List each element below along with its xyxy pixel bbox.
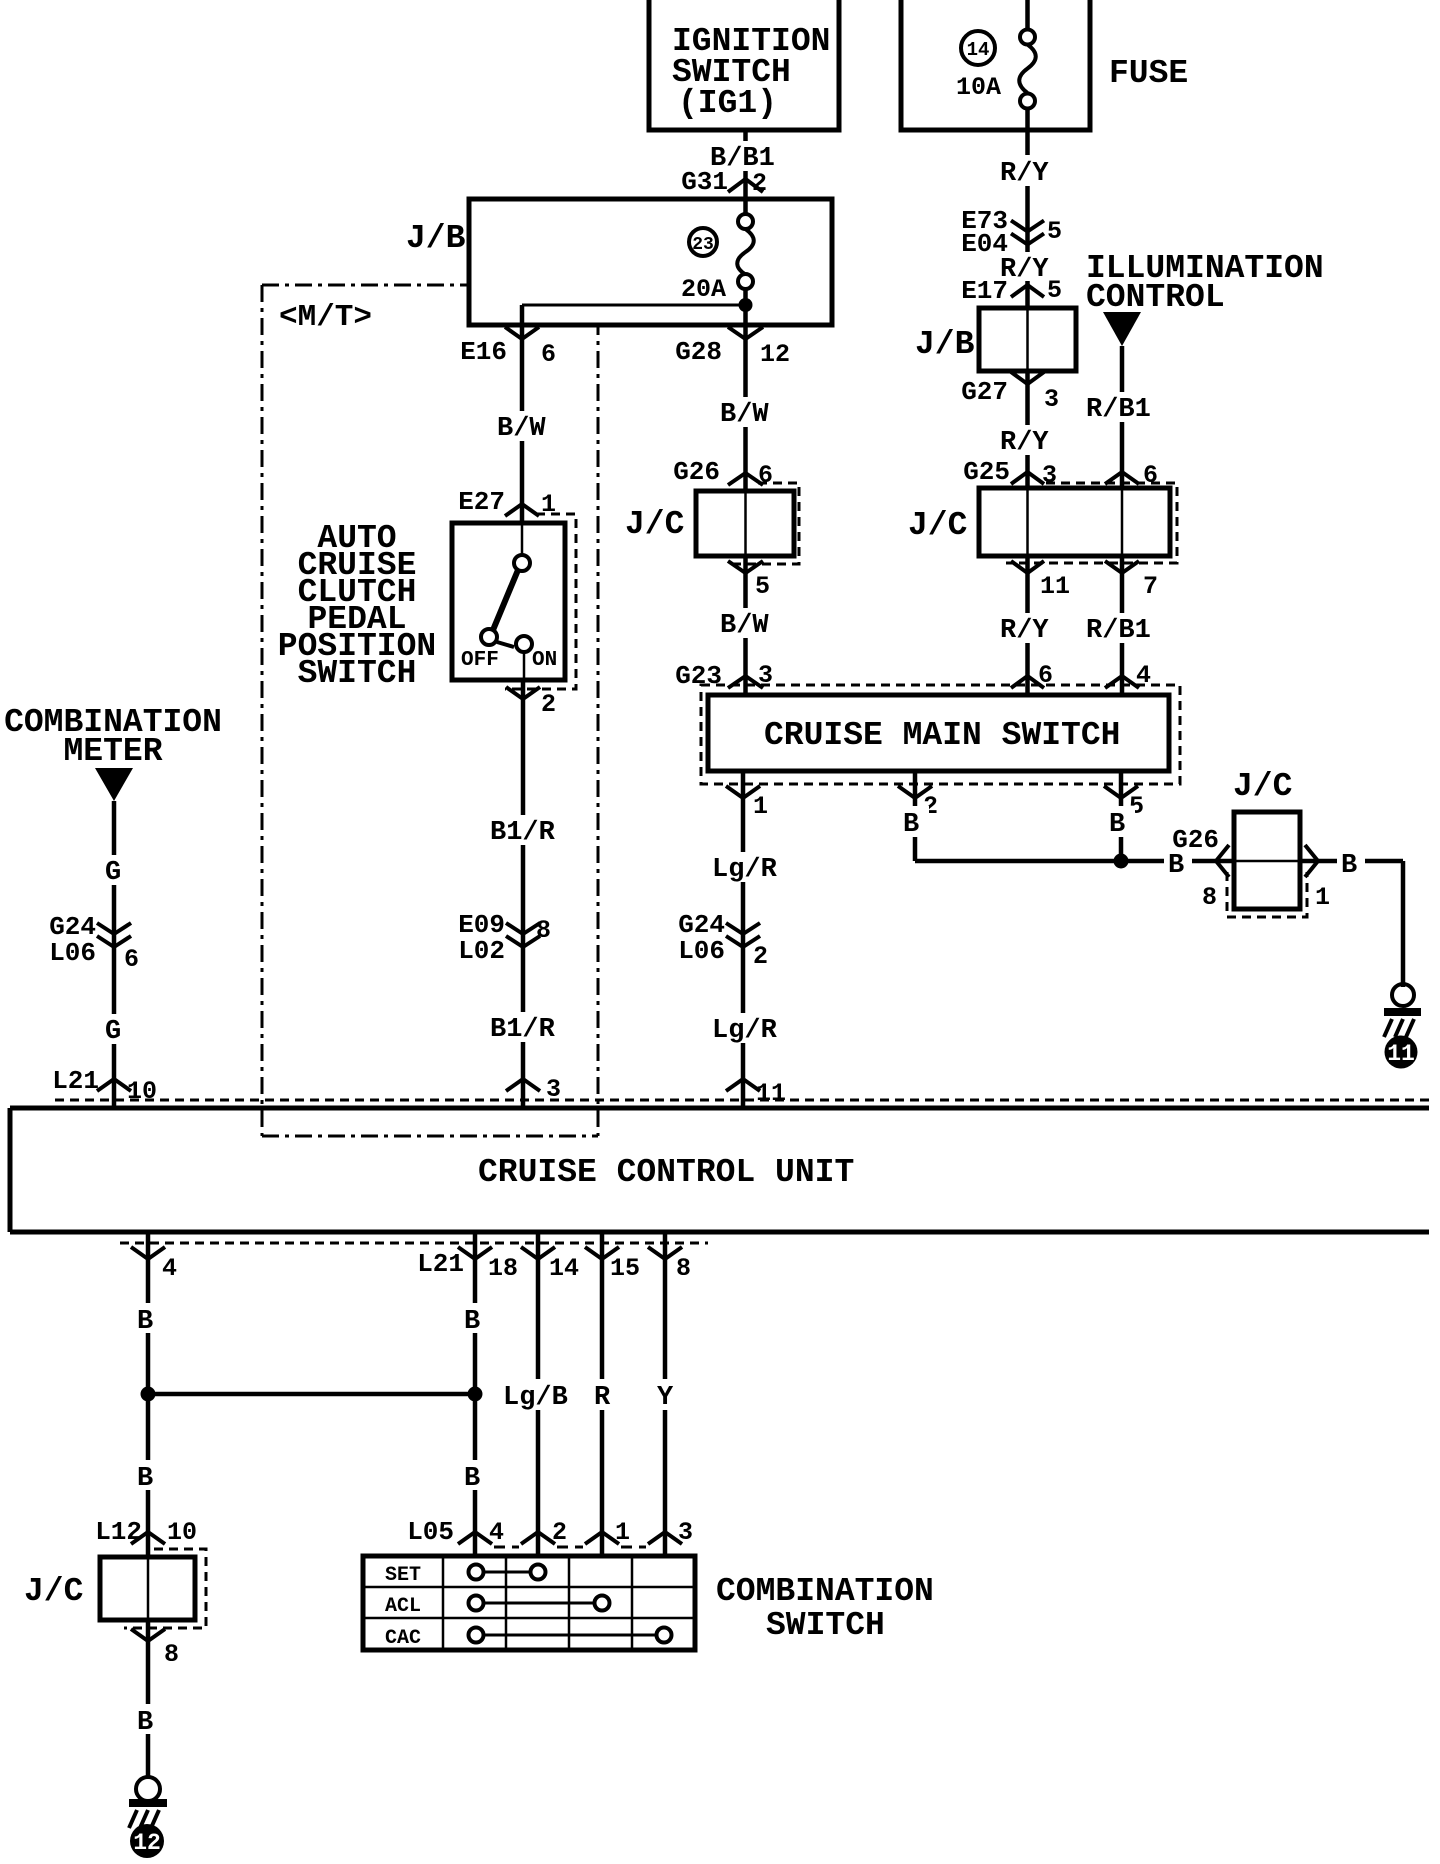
svg-text:B: B xyxy=(137,1307,153,1337)
svg-text:R: R xyxy=(594,1383,611,1413)
svg-text:ON: ON xyxy=(532,649,557,672)
svg-text:E27: E27 xyxy=(458,487,505,517)
svg-text:G: G xyxy=(105,1017,121,1047)
svg-text:CRUISE CONTROL UNIT: CRUISE CONTROL UNIT xyxy=(478,1154,854,1191)
svg-text:R/Y: R/Y xyxy=(1000,159,1049,189)
svg-text:L06: L06 xyxy=(49,938,96,968)
svg-text:COMBINATION: COMBINATION xyxy=(716,1573,934,1610)
svg-text:10: 10 xyxy=(127,1077,157,1106)
svg-text:FUSE: FUSE xyxy=(1109,55,1188,92)
svg-text:15: 15 xyxy=(610,1254,640,1283)
svg-text:B/W: B/W xyxy=(497,414,546,444)
svg-text:6: 6 xyxy=(758,461,773,490)
svg-text:B: B xyxy=(137,1708,153,1738)
svg-text:L06: L06 xyxy=(678,936,725,966)
svg-text:8: 8 xyxy=(676,1254,691,1283)
svg-text:OFF: OFF xyxy=(461,649,499,672)
svg-text:Y: Y xyxy=(657,1383,674,1413)
svg-text:4: 4 xyxy=(162,1254,177,1283)
svg-text:B: B xyxy=(137,1464,153,1494)
svg-text:8: 8 xyxy=(1202,883,1217,912)
svg-text:14: 14 xyxy=(549,1254,579,1283)
svg-text:8: 8 xyxy=(164,1640,179,1669)
svg-text:14: 14 xyxy=(967,39,990,61)
svg-text:B: B xyxy=(1341,851,1357,881)
svg-text:20A: 20A xyxy=(681,275,726,304)
svg-text:SET: SET xyxy=(385,1564,421,1587)
svg-text:Lg/R: Lg/R xyxy=(712,855,778,885)
svg-text:CAC: CAC xyxy=(385,1627,421,1650)
svg-text:4: 4 xyxy=(489,1518,504,1547)
svg-text:G28: G28 xyxy=(675,337,722,367)
svg-text:J/C: J/C xyxy=(908,507,967,544)
svg-text:B/W: B/W xyxy=(720,400,769,430)
svg-text:L02: L02 xyxy=(458,936,505,966)
svg-text:E16: E16 xyxy=(460,337,507,367)
svg-text:12: 12 xyxy=(133,1830,161,1856)
svg-text:8: 8 xyxy=(536,916,551,945)
svg-text:METER: METER xyxy=(63,733,162,770)
svg-text:6: 6 xyxy=(541,340,556,369)
svg-text:B: B xyxy=(1168,851,1184,881)
svg-text:J/B: J/B xyxy=(406,220,466,257)
svg-text:2: 2 xyxy=(752,169,767,198)
svg-text:G23: G23 xyxy=(675,661,722,691)
svg-text:J/B: J/B xyxy=(915,326,975,363)
svg-text:Lg/B: Lg/B xyxy=(503,1383,568,1413)
svg-text:R/B1: R/B1 xyxy=(1086,395,1151,425)
svg-text:L05: L05 xyxy=(407,1517,454,1547)
svg-text:R/Y: R/Y xyxy=(1000,616,1049,646)
svg-text:11: 11 xyxy=(756,1079,786,1108)
svg-text:B1/R: B1/R xyxy=(490,1015,556,1045)
svg-text:J/C: J/C xyxy=(1233,768,1292,805)
svg-text:G27: G27 xyxy=(961,377,1008,407)
svg-text:2: 2 xyxy=(753,942,768,971)
svg-text:B: B xyxy=(464,1464,480,1494)
svg-text:1: 1 xyxy=(615,1518,630,1547)
svg-text:10A: 10A xyxy=(956,73,1001,102)
svg-text:SWITCH: SWITCH xyxy=(766,1607,885,1644)
svg-text:11: 11 xyxy=(1040,572,1070,601)
svg-text:J/C: J/C xyxy=(24,1573,83,1610)
svg-text:<M/T>: <M/T> xyxy=(279,300,372,335)
svg-text:CRUISE MAIN SWITCH: CRUISE MAIN SWITCH xyxy=(764,717,1120,754)
svg-text:G26: G26 xyxy=(1172,825,1219,855)
svg-text:G25: G25 xyxy=(963,457,1010,487)
svg-text:G26: G26 xyxy=(673,457,720,487)
svg-text:1: 1 xyxy=(1315,883,1330,912)
svg-text:11: 11 xyxy=(1387,1041,1415,1067)
svg-text:L21: L21 xyxy=(417,1249,464,1279)
svg-text:G: G xyxy=(105,858,121,888)
svg-text:23: 23 xyxy=(692,235,714,255)
svg-text:ACL: ACL xyxy=(385,1595,421,1618)
svg-text:(IG1): (IG1) xyxy=(678,85,777,122)
svg-text:3: 3 xyxy=(678,1518,693,1547)
svg-text:5: 5 xyxy=(1047,217,1062,246)
svg-text:R/Y: R/Y xyxy=(1000,428,1049,458)
svg-text:10: 10 xyxy=(167,1518,197,1547)
svg-text:B/W: B/W xyxy=(720,611,769,641)
svg-text:CONTROL: CONTROL xyxy=(1086,279,1225,316)
svg-text:1: 1 xyxy=(753,792,768,821)
svg-text:2: 2 xyxy=(552,1518,567,1547)
svg-text:5: 5 xyxy=(1047,276,1062,305)
svg-text:B: B xyxy=(903,810,919,840)
svg-text:L21: L21 xyxy=(52,1066,99,1096)
svg-text:2: 2 xyxy=(541,690,556,719)
svg-text:3: 3 xyxy=(1044,385,1059,414)
svg-text:E17: E17 xyxy=(961,276,1008,306)
svg-text:B: B xyxy=(1109,810,1125,840)
svg-text:B1/R: B1/R xyxy=(490,818,556,848)
svg-text:7: 7 xyxy=(1143,572,1158,601)
svg-text:5: 5 xyxy=(755,572,770,601)
svg-text:R/B1: R/B1 xyxy=(1086,616,1151,646)
svg-text:J/C: J/C xyxy=(625,506,684,543)
svg-text:18: 18 xyxy=(488,1254,518,1283)
svg-text:6: 6 xyxy=(124,945,139,974)
svg-text:12: 12 xyxy=(760,340,790,369)
svg-text:G31: G31 xyxy=(681,167,728,197)
svg-text:SWITCH: SWITCH xyxy=(298,655,417,692)
svg-text:B: B xyxy=(464,1307,480,1337)
svg-text:Lg/R: Lg/R xyxy=(712,1016,778,1046)
